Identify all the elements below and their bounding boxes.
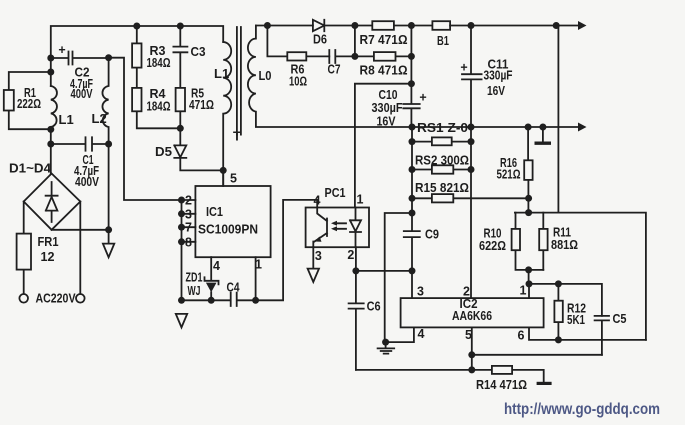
svg-text:3: 3 bbox=[315, 249, 322, 263]
node: RS2 left bbox=[409, 166, 416, 173]
svg-text:http://www.go-gddq.com: http://www.go-gddq.com bbox=[504, 401, 660, 418]
capacitor C1 bbox=[51, 137, 109, 150]
svg-text:RS1 Z-0: RS1 Z-0 bbox=[417, 120, 468, 135]
IC1 left pin rail bbox=[182, 200, 196, 300]
node: L0 top / R6 tap bbox=[264, 22, 271, 29]
ground (IC2 pin4, earth) bbox=[378, 342, 395, 354]
node: IC2 pin5 / R14 rail bbox=[468, 366, 475, 373]
svg-text:C3: C3 bbox=[191, 44, 206, 59]
svg-text:5: 5 bbox=[465, 328, 472, 342]
svg-text:330µF: 330µF bbox=[484, 68, 513, 83]
PC1 coupling arrows bbox=[336, 223, 346, 229]
svg-text:RS2 300Ω: RS2 300Ω bbox=[415, 153, 469, 168]
diode D6 bbox=[313, 20, 372, 31]
component B1 bbox=[432, 21, 450, 30]
capacitor C5 bbox=[595, 316, 609, 355]
svg-text:R7 471Ω: R7 471Ω bbox=[360, 32, 408, 47]
resistor R12 bbox=[557, 284, 559, 340]
resistor R6 bbox=[267, 26, 329, 57]
node: ZD1 anode / C4 left bbox=[208, 297, 215, 304]
node: R3 top on input rail bbox=[133, 23, 140, 30]
svg-text:2: 2 bbox=[347, 248, 354, 262]
svg-text:SC1009PN: SC1009PN bbox=[198, 222, 258, 237]
svg-text:FR1: FR1 bbox=[38, 234, 59, 249]
PC1 phototransistor bbox=[313, 208, 327, 248]
node: feedback loop tap on + rail bbox=[553, 22, 560, 29]
svg-text:4: 4 bbox=[314, 193, 321, 207]
svg-text:1: 1 bbox=[357, 193, 364, 207]
node: R10/R11 bottom bbox=[525, 266, 532, 273]
node: R1 bottom bbox=[47, 126, 54, 133]
wire: bridge minus rail bbox=[52, 229, 109, 231]
wire: divider mid rail to right loop bbox=[515, 213, 646, 340]
wire: C4 node to PC1 pin4 bbox=[256, 200, 318, 300]
capacitor C4 bbox=[182, 293, 256, 306]
node: R16 top bbox=[525, 124, 532, 131]
resistor R3 bbox=[136, 26, 138, 88]
optocoupler PC1 box bbox=[306, 208, 369, 248]
node: D6 cathode / R7 left bbox=[351, 22, 358, 29]
PC1 pin2 wire bbox=[355, 247, 357, 271]
capacitor C10 bbox=[403, 26, 419, 128]
svg-text:3: 3 bbox=[417, 285, 424, 299]
svg-text:400V: 400V bbox=[75, 174, 99, 189]
capacitor C3 bbox=[173, 26, 187, 88]
wire: IC1 pin2 to C2/L2 node bbox=[109, 58, 182, 200]
svg-text:C7: C7 bbox=[328, 62, 341, 77]
transformer secondary winding L0 bbox=[248, 26, 412, 128]
IC2 pin 4 wire bbox=[386, 327, 414, 342]
svg-text:C4: C4 bbox=[227, 280, 241, 295]
svg-text:12: 12 bbox=[41, 249, 55, 264]
node: R15 left bbox=[409, 195, 416, 202]
wire: right sense rail to IC2 pin2 bbox=[470, 127, 472, 298]
svg-text:16V: 16V bbox=[377, 114, 396, 129]
node: C10 bottom / output rail 2 bbox=[409, 124, 416, 131]
svg-text:D5: D5 bbox=[155, 144, 172, 159]
svg-text:R15 821Ω: R15 821Ω bbox=[415, 180, 469, 195]
svg-text:521Ω: 521Ω bbox=[497, 167, 521, 182]
resistor R14 and rail bbox=[356, 370, 544, 382]
wire: divider tap to IC2 pin1 rail bbox=[529, 270, 602, 316]
svg-text:8: 8 bbox=[185, 235, 192, 249]
node: R15 right / R16 bottom bbox=[525, 195, 532, 202]
IC1 box bbox=[195, 186, 270, 257]
svg-text:L0: L0 bbox=[259, 68, 272, 83]
AC220V input terminals bbox=[19, 294, 28, 303]
svg-text:AC220V: AC220V bbox=[36, 291, 76, 306]
ground (IC1) bbox=[176, 314, 187, 328]
resistor R4 bbox=[137, 111, 181, 128]
svg-text:L2: L2 bbox=[92, 111, 107, 126]
wire: feedback to PC1 pin1 bbox=[355, 84, 412, 208]
ground (PC1 pin3) bbox=[308, 247, 319, 282]
svg-text:5: 5 bbox=[230, 172, 237, 186]
node: RS2 right bbox=[468, 166, 475, 173]
capacitor C7 bbox=[329, 50, 355, 63]
svg-text:184Ω: 184Ω bbox=[147, 99, 171, 114]
svg-text:10Ω: 10Ω bbox=[289, 74, 307, 89]
svg-text:C6: C6 bbox=[367, 299, 381, 314]
svg-text:L1: L1 bbox=[59, 112, 74, 127]
svg-text:+: + bbox=[419, 91, 426, 105]
node: IC1 pin3 bbox=[178, 210, 185, 217]
node: C11 bottom / sense rail top bbox=[468, 124, 475, 131]
svg-text:R8 471Ω: R8 471Ω bbox=[360, 63, 408, 78]
node: IC2 pin4 ground junction bbox=[382, 339, 389, 346]
wire: output rail 2 bbox=[412, 126, 578, 128]
node: IC2 pin1 bbox=[526, 280, 533, 287]
ground bar on output rail bbox=[542, 127, 544, 142]
IC2 pin 1 wire bbox=[528, 284, 530, 298]
svg-text:D1~D4: D1~D4 bbox=[9, 161, 52, 176]
fuse resistor FR1 bbox=[23, 202, 25, 294]
svg-text:622Ω: 622Ω bbox=[479, 238, 506, 253]
svg-text:400V: 400V bbox=[71, 86, 93, 101]
wire: feedback loop from + output bbox=[557, 26, 559, 213]
bridge rectifier D1~D4 bbox=[24, 174, 81, 230]
svg-text:C5: C5 bbox=[613, 311, 627, 326]
wire: top-left rail and primary top corner bbox=[51, 26, 223, 86]
IC2 box bbox=[401, 298, 544, 327]
svg-text:IC1: IC1 bbox=[206, 205, 223, 219]
capacitor C6 bbox=[349, 271, 364, 370]
inductor L1 (EMI choke) bbox=[51, 86, 57, 127]
svg-text:1: 1 bbox=[255, 258, 262, 272]
svg-text:3: 3 bbox=[185, 207, 192, 221]
wire: PC1 pin2 to IC2 pin3 rail bbox=[356, 270, 412, 272]
transformer core bbox=[237, 27, 241, 135]
node: R12 top bbox=[555, 280, 562, 287]
transformer T primary winding L1 bbox=[223, 42, 231, 186]
node: C4 right / IC1 pin1 bbox=[252, 297, 259, 304]
wire: left vertical to bridge bbox=[50, 127, 52, 174]
svg-text:C9: C9 bbox=[425, 227, 439, 242]
output arrow top bbox=[578, 21, 587, 30]
IC1 pin 5 bbox=[222, 170, 224, 186]
node: R8 right bbox=[408, 53, 415, 60]
svg-text:6: 6 bbox=[518, 329, 525, 343]
node: IC2 pin5 / C5 return bbox=[468, 351, 475, 358]
svg-text:2: 2 bbox=[463, 285, 470, 299]
svg-text:2: 2 bbox=[185, 194, 192, 208]
svg-text:R14 471Ω: R14 471Ω bbox=[476, 377, 527, 392]
resistor R15 bbox=[412, 197, 529, 199]
node: D5 return / IC1 pin5 bbox=[220, 167, 227, 174]
svg-text:1: 1 bbox=[520, 284, 527, 298]
resistor R11 bbox=[542, 213, 544, 270]
svg-text:5K1: 5K1 bbox=[567, 312, 585, 327]
svg-text:4: 4 bbox=[418, 327, 425, 341]
svg-text:16V: 16V bbox=[487, 83, 505, 98]
svg-text:881Ω: 881Ω bbox=[551, 237, 578, 252]
node: R12 bottom bbox=[555, 336, 562, 343]
resistor R16 bbox=[527, 127, 529, 213]
wire: C9 top to ground bbox=[385, 213, 412, 342]
node: C2 left bbox=[47, 55, 54, 62]
svg-text:4: 4 bbox=[213, 259, 220, 273]
resistor RS1 Z-0 bbox=[412, 141, 471, 143]
svg-text:B1: B1 bbox=[437, 33, 449, 48]
svg-text:+: + bbox=[58, 43, 65, 57]
svg-text:PC1: PC1 bbox=[325, 185, 346, 200]
svg-text:L1: L1 bbox=[214, 66, 229, 81]
svg-text:222Ω: 222Ω bbox=[17, 96, 41, 111]
node: PC1 feed tap bbox=[408, 80, 415, 87]
output arrow bottom bbox=[578, 123, 587, 132]
wire: left sense rail with C9 in series bbox=[404, 127, 420, 298]
node: C9 bottom / IC2 pin3 bbox=[409, 267, 416, 274]
svg-text:471Ω: 471Ω bbox=[189, 97, 214, 112]
resistor RS2 bbox=[412, 169, 471, 171]
wire: IC2 pin5 to C5 bottom bbox=[472, 327, 602, 370]
wire: secondary top rail bbox=[256, 25, 313, 27]
node: PC1 pin2 junction bbox=[352, 267, 359, 274]
svg-text:WJ: WJ bbox=[188, 283, 201, 298]
node: IC1 pin7 bbox=[178, 224, 185, 231]
node: IC1 pin2 bbox=[178, 197, 185, 204]
resistor R7 bbox=[372, 21, 394, 30]
node: bridge minus / ground bbox=[105, 226, 112, 233]
svg-text:AA6K66: AA6K66 bbox=[452, 309, 492, 323]
node: IC1 ground rail bbox=[178, 297, 185, 304]
node: IC1 pin8 bbox=[178, 238, 185, 245]
node: R8 left / C7 right bbox=[351, 53, 358, 60]
ground bar (R14) bbox=[537, 382, 552, 385]
node: R1 top bbox=[47, 69, 54, 76]
capacitor C11 bbox=[462, 26, 482, 128]
ground (AC side) bbox=[103, 230, 114, 257]
node: ground bar tap bbox=[539, 124, 546, 131]
node: C2 right / L2 top / IC1 pin2 tap bbox=[105, 54, 112, 61]
zener ZD1 bbox=[205, 257, 219, 300]
resistor R10 bbox=[516, 213, 544, 270]
diode D5 bbox=[174, 128, 223, 170]
resistor R8 bbox=[355, 26, 412, 57]
svg-text:7: 7 bbox=[185, 221, 192, 235]
wire: IC2 pin6 rail bbox=[529, 327, 646, 340]
svg-text:D6: D6 bbox=[313, 32, 327, 47]
svg-text:+: + bbox=[460, 61, 467, 75]
node: RS1 right bbox=[468, 138, 475, 145]
node: R4/R5 junction bbox=[177, 125, 184, 132]
svg-text:184Ω: 184Ω bbox=[147, 55, 171, 70]
resistor R5 bbox=[179, 111, 181, 128]
node: C1 right bbox=[105, 141, 112, 148]
node: C1 left bbox=[47, 141, 54, 148]
node: RS1 left bbox=[409, 138, 416, 145]
PC1 LED bbox=[350, 208, 361, 248]
node: C11 top bbox=[468, 22, 475, 29]
inductor L2 (EMI choke) bbox=[102, 58, 108, 230]
node: divider top rail bbox=[525, 209, 532, 216]
node: C3 top on input rail bbox=[177, 23, 184, 30]
node: R7 right / B1 rail bbox=[408, 22, 415, 29]
resistor R1 loop bbox=[9, 72, 51, 129]
capacitor C2 bbox=[51, 52, 109, 65]
IC1 pin 1 bbox=[255, 257, 257, 300]
node: C9 top / ground tap bbox=[409, 210, 416, 217]
